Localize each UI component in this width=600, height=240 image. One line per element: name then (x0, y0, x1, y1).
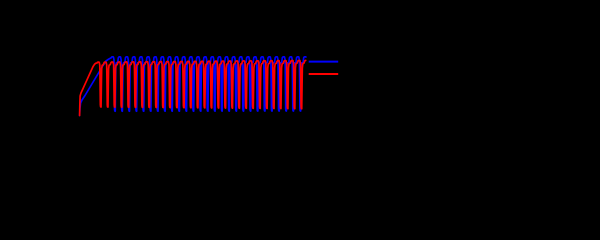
legend red line (309, 73, 339, 75)
legend blue line (309, 61, 339, 63)
red waveform trace (80, 60, 306, 115)
blue waveform trace (80, 57, 306, 116)
